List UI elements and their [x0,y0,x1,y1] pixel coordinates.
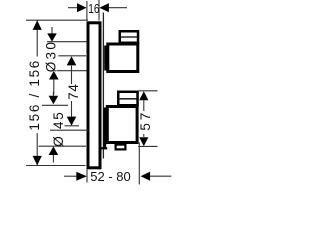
dim 74 top arrow [67,56,77,65]
bottom handle paddle [118,92,137,106]
dim O30 bottom arrow tail [53,80,55,95]
dim O30 top arrow [47,33,57,41]
wall line [102,13,104,159]
dim O45 top arrow tail [52,92,54,96]
dim 156/156 top arrow [33,20,42,30]
svg-text:16: 16 [88,2,99,16]
dim 57 top arrow [139,91,148,100]
escutcheon plate (side view) [88,23,100,168]
dim 74 line upper segment [71,66,73,84]
dim 74 line lower segment [71,101,73,117]
top handle sleeve edge [104,46,107,71]
dim 156/156 bottom extension line [26,165,86,167]
dim O30 top extension line [47,41,87,43]
dim 16 right arrow [99,3,109,12]
dim 16 left arrow [77,3,87,12]
dim O45 bottom arrow tail [52,155,54,163]
dim 52-80 left arrow [76,172,87,181]
svg-text:52 - 80: 52 - 80 [90,169,130,184]
dim O30 bottom arrow [49,71,59,80]
dim O45 top extension line [42,104,68,106]
dim 156/156 bottom arrow [33,156,42,166]
svg-text:Ø 45: Ø 45 [51,111,66,147]
dim 52-80 right arrow [141,172,151,181]
dim O30 bottom extension line [57,70,87,72]
dim 57 line lower segment [143,134,145,137]
bottom paddle inner line [119,98,138,100]
svg-text:Ø30: Ø30 [44,40,59,73]
dim 74 top extension line (upper handle centre) [58,55,86,57]
dim O30 top arrow tail [51,27,53,34]
step under handle (sleeve bottom) [101,147,108,149]
top handle paddle [120,31,138,43]
dim 16 left arrow tail [68,7,78,9]
dim 57 bottom arrow [139,137,148,146]
dim 52-80 right arrow tail [150,175,171,177]
dim 52-80 left extension line [86,170,88,183]
bottom handle body [107,107,137,143]
dim 57 top extension line [139,90,158,92]
dim 57 line upper segment [143,100,145,111]
top paddle inner line [120,36,138,38]
dim 16 right extension line (plate rear) [98,0,100,21]
dim 57 bottom extension line [138,145,157,147]
lower handle centre short line [65,125,80,127]
svg-text:57: 57 [138,110,153,131]
dim 16 right arrow tail [109,7,127,9]
dim O45 bottom arrow [49,146,59,155]
dim 52-80 right extension line [138,143,140,185]
top handle body [108,44,138,72]
dim 52-80 left arrow tail [64,175,77,177]
dim 156/156 line lower segment [36,133,38,165]
svg-text:156 / 156: 156 / 156 [27,59,42,131]
bottom handle sleeve edge [103,108,106,149]
dim O45 top arrow [49,96,59,105]
dim 156/156 top extension line [26,19,88,21]
dim 16 left extension line (plate front face) [86,1,88,21]
svg-text:74: 74 [66,83,81,100]
dim 74 bottom extension line (lower handle centre) [50,129,89,131]
dim 156/156 line upper segment [36,20,38,56]
dim O45 bottom extension line [39,145,87,147]
safety stop nub [116,145,126,150]
dim 74 bottom arrow [67,117,77,126]
